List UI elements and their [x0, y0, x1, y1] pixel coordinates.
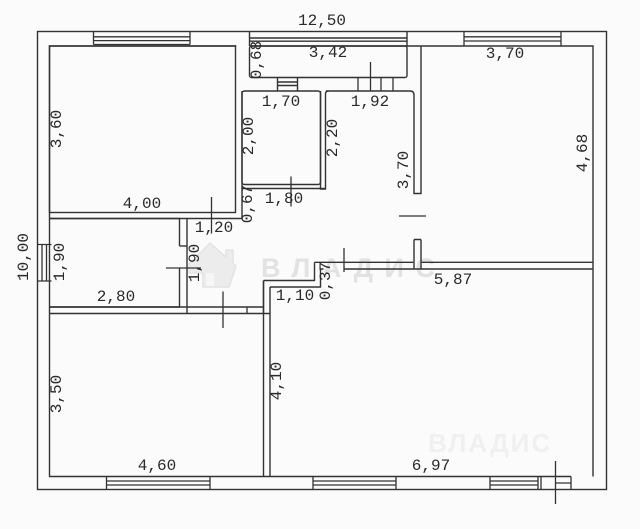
outer wall rectangle: [38, 32, 607, 490]
inner wall face line with entrance gap: [50, 46, 594, 477]
svg-text:2,00: 2,00: [240, 117, 258, 155]
svg-text:4,68: 4,68: [574, 134, 592, 172]
bathroom 1,70 x 2,00: [242, 91, 321, 185]
wall living room left pair: [264, 281, 271, 477]
svg-text:4,60: 4,60: [138, 457, 176, 475]
wall room A bottom lower line: [50, 218, 243, 220]
wall room B door cap: [180, 245, 188, 247]
window band above closet strip: [250, 32, 408, 47]
svg-text:1,90: 1,90: [186, 244, 204, 282]
svg-text:ВЛАДИС: ВЛАДИС: [428, 428, 552, 458]
svg-text:1,10: 1,10: [276, 287, 314, 305]
room mid-left 2,80 x 1,90: [50, 219, 180, 308]
wall room B right outer line: [186, 219, 188, 314]
door leaf room A: [211, 197, 213, 234]
svg-text:1,20: 1,20: [195, 219, 233, 237]
wall step 1,10 x 0,37: [264, 262, 321, 287]
door leaf closet strip: [370, 62, 372, 91]
svg-text:4,00: 4,00: [123, 195, 161, 213]
svg-text:2,20: 2,20: [324, 119, 342, 157]
room top-left 4,00 x 3,60: [50, 46, 236, 213]
svg-text:1,70: 1,70: [262, 93, 300, 111]
door leaf bathroom: [290, 177, 292, 207]
door jambs closet strip: [358, 78, 393, 92]
window bottom living right: [490, 477, 538, 490]
svg-text:0,68: 0,68: [248, 41, 266, 79]
closet strip 3,42 x 0,68: [250, 46, 408, 78]
svg-text:3,42: 3,42: [309, 44, 347, 62]
svg-text:10,00: 10,00: [15, 233, 33, 281]
window top room A: [94, 32, 191, 45]
window bottom living left: [313, 477, 396, 490]
svg-text:1,80: 1,80: [265, 190, 303, 208]
wall living room top: [315, 262, 594, 269]
svg-text:0,37: 0,37: [317, 262, 335, 300]
svg-text:2,80: 2,80: [97, 288, 135, 306]
vent window bathroom: [278, 78, 298, 91]
wall room C right edge: [263, 281, 265, 314]
wall toilet top edge: [326, 90, 410, 92]
svg-text:6,97: 6,97: [412, 457, 450, 475]
entrance door leaf and jambs: [541, 461, 571, 504]
wall band between rooms B and C: [50, 307, 271, 314]
svg-text:5,87: 5,87: [434, 271, 472, 289]
svg-text:1,90: 1,90: [51, 243, 69, 281]
window bottom room C: [107, 477, 211, 490]
svg-text:ВЛАДИС: ВЛАДИС: [261, 253, 446, 283]
svg-text:4,10: 4,10: [268, 362, 286, 400]
svg-text:3,60: 3,60: [48, 110, 66, 148]
svg-text:3,70: 3,70: [395, 151, 413, 189]
svg-text:12,50: 12,50: [298, 12, 346, 30]
svg-text:1,92: 1,92: [351, 93, 389, 111]
wall hall right outer line: [241, 91, 243, 219]
svg-text:0,67: 0,67: [239, 185, 257, 223]
watermark house logo: [189, 243, 236, 287]
door leaf room right: [399, 215, 426, 217]
door leaf room C with jamb tick: [223, 292, 247, 329]
wall corridor pair with door opening: [410, 46, 421, 269]
wall bathroom bottom outer line: [242, 188, 326, 190]
svg-text:3,70: 3,70: [486, 45, 524, 63]
window top room right: [464, 32, 561, 46]
svg-text:3,50: 3,50: [48, 375, 66, 413]
wall toilet left pair with bottom cap: [321, 91, 329, 189]
door leaf room B: [166, 267, 201, 269]
door leaf living room: [343, 248, 345, 272]
window left room B: [38, 245, 52, 282]
